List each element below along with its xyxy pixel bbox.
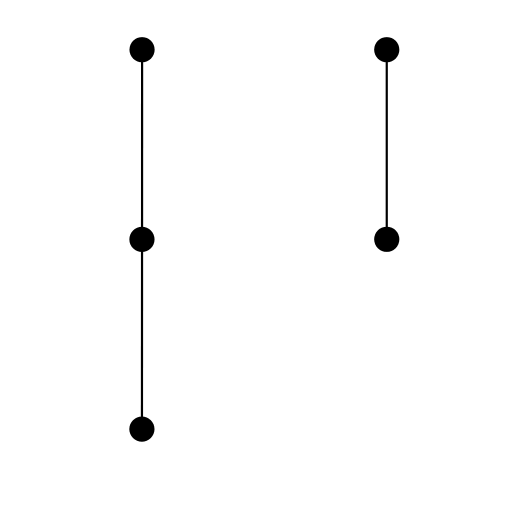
node 1	[129, 37, 154, 62]
wire: left edge, node 1 to node 2	[141, 50, 143, 240]
node 2	[129, 227, 154, 252]
node 3	[129, 417, 154, 442]
wire: left edge, node 2 to node 3	[141, 239, 143, 429]
node 4	[374, 37, 399, 62]
wire: right edge, node 4 to node 5	[386, 50, 388, 240]
node 5	[374, 227, 399, 252]
